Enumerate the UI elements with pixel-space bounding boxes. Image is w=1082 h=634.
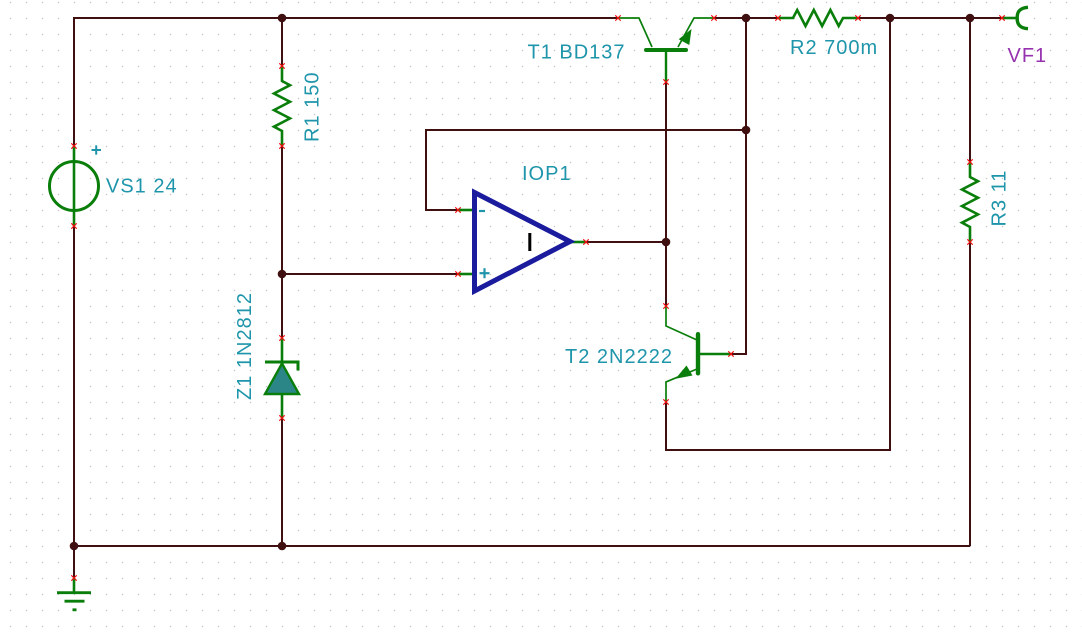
wire R2 right to VF1 <box>858 17 1002 19</box>
zener diode Z1 <box>265 338 299 418</box>
ground <box>57 578 91 610</box>
voltage source VS1 <box>50 145 102 226</box>
wire feedback loop <box>426 130 746 210</box>
wire T1 emitter node down to T2 base <box>731 18 746 354</box>
wire bottom rail <box>74 545 970 547</box>
wire R1 bottom to Z1 top <box>281 146 283 338</box>
wire op-amp output <box>586 241 666 243</box>
svg-text:T1 BD137: T1 BD137 <box>528 42 626 64</box>
wire VS1 bottom to bottom rail <box>73 226 75 546</box>
svg-text:T2 2N2222: T2 2N2222 <box>565 346 673 368</box>
wire T1 base to T2 collector <box>665 82 667 306</box>
op-amp IOP1 <box>458 193 586 292</box>
wire T1 emitter to R2 left <box>714 17 778 19</box>
svg-text:IOP1: IOP1 <box>522 163 572 185</box>
wire Z1 bottom to bottom rail <box>281 418 283 546</box>
terminal x marks <box>71 15 1004 580</box>
svg-text:R2 700m: R2 700m <box>790 37 878 59</box>
svg-text:VF1: VF1 <box>1008 45 1048 67</box>
junction node dots <box>70 14 975 551</box>
wire R3 top <box>969 18 971 162</box>
svg-text:Z1 1N2812: Z1 1N2812 <box>234 292 256 400</box>
svg-text:R3 11: R3 11 <box>989 170 1011 227</box>
wire R1 top <box>281 18 283 66</box>
transistor T1 <box>618 18 714 82</box>
svg-text:R1 150: R1 150 <box>302 72 324 143</box>
wire R2 node down around to T2 emitter <box>666 18 890 450</box>
resistor R3 <box>962 162 978 242</box>
resistor R2 <box>778 10 858 26</box>
wire node to op-amp + input <box>282 273 458 275</box>
svg-text:VS1 24: VS1 24 <box>106 176 178 198</box>
transistor T2 <box>666 306 731 402</box>
wire top-left: VS1 top to T1 collector <box>74 18 618 146</box>
wire right rail R3 bottom <box>969 242 971 546</box>
resistor R1 <box>274 66 290 146</box>
voltage probe VF1 <box>1002 7 1028 28</box>
wire ground stub <box>73 546 75 578</box>
